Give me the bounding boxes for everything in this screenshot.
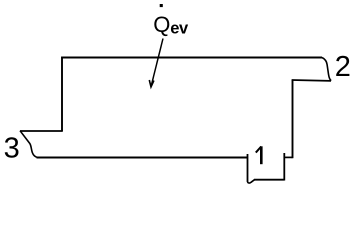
heat arrow Qev shaft [151,39,163,86]
label Qev dot [160,4,163,7]
evaporator top wall [61,57,322,59]
outlet 1 bottom wall [254,179,284,181]
outlet 2 pipe-break curve [322,58,331,81]
inlet 3 pipe-break curve [20,131,38,158]
bottom wall jog [284,156,293,158]
outlet 1 break hook [248,180,255,183]
evaporator bottom wall [37,157,248,159]
node label 1 flag [256,147,261,153]
svg-text:2: 2 [335,51,351,83]
outlet 1 right wall [283,153,285,181]
node label 1 stem [260,146,263,164]
svg-text:3: 3 [4,132,20,164]
inlet 3 upper wall [20,130,63,132]
outlet 1 left wall [247,154,249,182]
evaporator right wall [292,80,294,158]
evaporator left wall [61,57,63,131]
svg-text:ev: ev [170,19,189,37]
outlet 2 lower wall [292,79,331,82]
svg-text:Q: Q [153,12,170,37]
heat arrow Qev head [149,80,154,87]
